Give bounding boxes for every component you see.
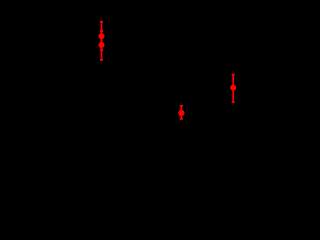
error bar point 3 (middle cluster) [180, 106, 183, 119]
marker point 2 [98, 42, 104, 48]
marker point 1 [98, 33, 104, 39]
error bar point 1 (upper-left cluster, upper point) [100, 22, 103, 51]
marker point 3 [178, 110, 184, 116]
error bar point 2 (upper-left cluster, lower point) [100, 31, 103, 60]
error bar point 4 (right cluster) [232, 75, 235, 103]
marker point 4 [230, 85, 236, 91]
